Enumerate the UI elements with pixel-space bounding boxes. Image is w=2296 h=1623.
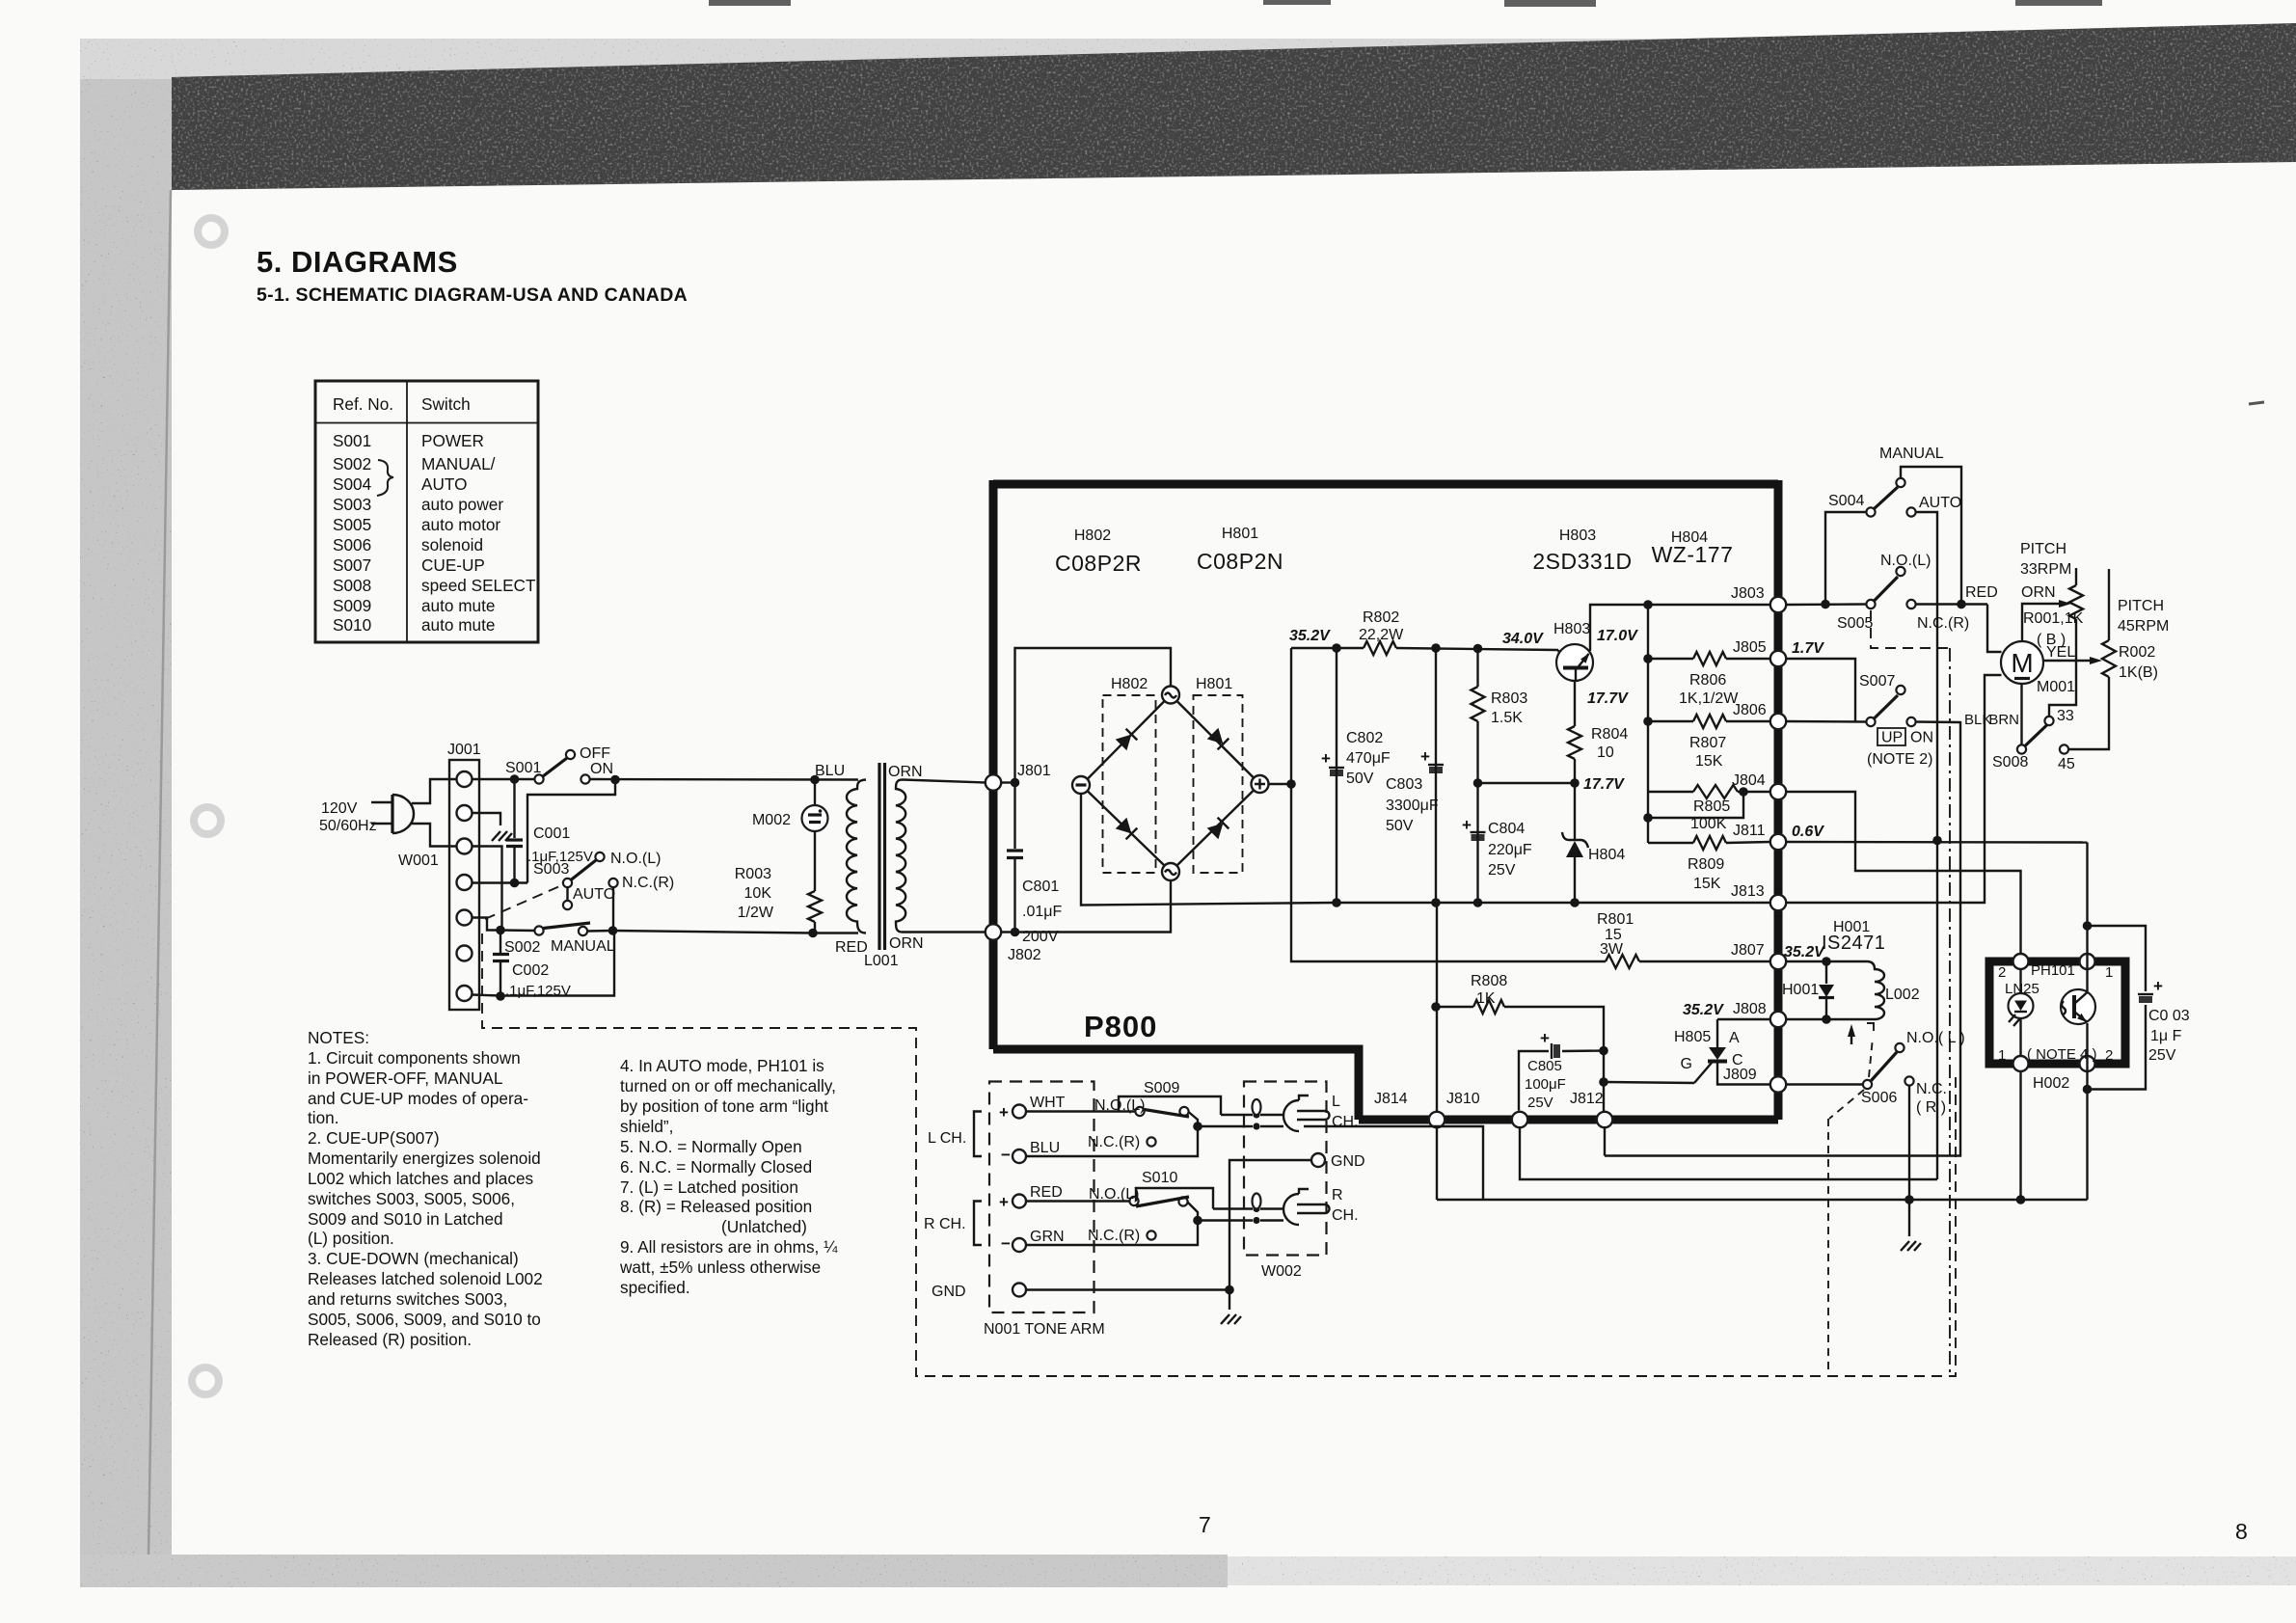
svg-text:H802: H802 [1074,527,1111,544]
wire ON-junction jog down to neutral row [527,780,615,883]
label ORN bottom [889,935,924,952]
svg-text:L002 which latches and places: L002 which latches and places [308,1169,533,1188]
label ON [590,761,613,777]
svg-text:RED: RED [835,939,868,956]
resistor R801 15 3W [1606,955,1770,968]
wire top AC path to bridge ~ [1015,648,1172,783]
label PH101 [2031,962,2075,979]
transformer L001 core [879,763,885,950]
ground rail [1437,1195,2088,1204]
svg-text:N.C.(R): N.C.(R) [1917,615,1969,632]
capacitor C001 [506,780,523,888]
switch S008 speed [2017,684,2068,754]
wire J803 to S005 [1787,600,1867,609]
svg-text:S003: S003 [333,495,371,514]
label C002 value [505,962,571,999]
pencil dash right margin [2249,402,2264,404]
resistor R804 10 [1568,681,1581,783]
svg-text:J805: J805 [1733,639,1767,656]
svg-text:+: + [999,1193,1009,1211]
dark scanned header band [172,23,2296,190]
wire J802 to bridge ~ [1002,880,1172,933]
svg-text:BLU: BLU [815,763,845,779]
svg-text:R002: R002 [2119,644,2155,661]
label H803 at transistor [1553,621,1590,637]
label C001 value [527,825,593,865]
capacitor C804 [1462,783,1486,903]
label pin1 bottom [1998,1047,2006,1064]
svg-text:17.7V: 17.7V [1587,690,1629,707]
svg-text:R801: R801 [1597,911,1634,928]
label P800 [1084,1010,1157,1043]
svg-text:J001: J001 [447,742,481,758]
feed column for R806/R807/R805/R809 [1643,605,1653,843]
svg-text:M002: M002 [752,812,791,828]
svg-text:1: 1 [2105,964,2113,981]
svg-text:C804: C804 [1488,821,1525,837]
P800 board thick border [993,480,1778,1120]
connector J813 [1770,895,1786,910]
wire H803 emitter to J803 [1590,600,1770,651]
svg-text:tion.: tion. [308,1108,339,1127]
svg-text:(NOTE 2): (NOTE 2) [1867,751,1932,768]
wire plug to J001 pin3 (W001 cord) [412,824,456,847]
label L CH. [928,1130,966,1147]
svg-text:N.O.(L): N.O.(L) [1880,553,1931,569]
tone arm terminals [1013,1105,1026,1297]
svg-text:C001: C001 [533,825,570,842]
resistor R802 22,2W [1364,641,1396,655]
wire YEL motor to R002 wiper [2043,657,2102,664]
svg-text:R003: R003 [735,866,771,882]
connector J803 [1770,597,1786,612]
svg-text:G: G [1681,1056,1692,1072]
svg-text:GRN: GRN [1030,1229,1065,1245]
label J802 [1008,947,1041,963]
svg-text:Momentarily energizes solenoid: Momentarily energizes solenoid [308,1149,541,1168]
label N.C.(R) of S005 [1917,615,1969,632]
svg-text:L001: L001 [864,953,899,969]
svg-text:S001: S001 [333,431,371,450]
svg-text:H804: H804 [1588,847,1625,863]
label J805 [1733,639,1767,656]
svg-text:H802: H802 [1111,676,1148,692]
svg-text:specified.: specified. [620,1278,690,1297]
svg-text:S007: S007 [333,555,371,575]
label N.O.(L) of S003 [610,851,661,867]
label H804 WZ-177 [1652,529,1734,567]
svg-text:AUTO: AUTO [1919,495,1961,511]
label ORN [2021,584,2056,601]
svg-text:+: + [1540,1029,1550,1047]
R plug tip line [1213,1205,1283,1212]
svg-text:H801: H801 [1222,526,1258,542]
label J808 [1733,1001,1767,1017]
svg-text:Releases latched solenoid L002: Releases latched solenoid L002 [308,1269,543,1288]
label 35.2V rail [1289,628,1331,644]
capacitor C802 [1321,648,1344,903]
bridge diode upper-right [1207,728,1229,750]
switch S006 solenoid [1863,1043,1914,1089]
label R805 100K [1690,798,1730,832]
svg-text:R809: R809 [1688,856,1724,873]
bridge diode lower-left [1116,818,1138,840]
RCA plug R [1253,1189,1330,1225]
bridge terminal ~ bottom [1162,863,1179,880]
label ON of S007 [1910,730,1933,746]
svg-text:R808: R808 [1471,973,1507,989]
svg-text:C08P2R: C08P2R [1055,551,1142,576]
zener H804 [1562,783,1588,907]
connector J809 [1770,1076,1786,1092]
label pin2 bottom [2105,1047,2113,1064]
svg-text:J809: J809 [1723,1067,1757,1083]
wire J807 to relay node [1770,957,1831,966]
svg-text:6. N.C. = Normally Closed: 6. N.C. = Normally Closed [620,1157,812,1177]
svg-text:IS2471: IS2471 [1822,933,1885,954]
label J813 [1731,883,1765,900]
svg-text:(Unlatched): (Unlatched) [721,1217,807,1236]
label 35.2V at J808 [1683,1002,1724,1018]
wire S003 N.C.(R) down to S002 output [612,887,614,931]
label S006 [1861,1090,1897,1106]
label H803 2SD331D [1532,527,1632,574]
svg-text:1: 1 [1998,1047,2006,1064]
wire J810 to mute bus [1520,1128,1937,1180]
svg-text:35.2V: 35.2V [1784,944,1825,960]
wire BLU to L shield [1026,1122,1202,1156]
svg-text:A: A [1729,1030,1740,1046]
label N001 TONE ARM [984,1321,1105,1338]
svg-text:and returns switches S003,: and returns switches S003, [308,1289,507,1309]
ground symbol tone arm [1221,1314,1241,1324]
label H002 [2033,1075,2069,1092]
label H801 C08P2N [1197,526,1283,574]
label S007 [1859,673,1895,690]
svg-text:MANUAL/: MANUAL/ [421,454,496,473]
label RED [1965,584,1998,601]
svg-text:( R ): ( R ) [1916,1099,1946,1116]
label N.C.(R) of S003 [622,875,674,891]
svg-text:Switch: Switch [421,394,471,414]
bridge terminal - left [1072,776,1090,794]
svg-text:1. Circuit components shown: 1. Circuit components shown [308,1048,521,1068]
label 0.6V at J811 [1792,824,1824,840]
wire gate to C805 node [1606,1082,1694,1083]
connector J810 [1512,1112,1527,1127]
svg-text:Ref. No.: Ref. No. [333,394,393,414]
label C cathode [1732,1052,1743,1068]
svg-text:H001: H001 [1782,982,1819,998]
svg-text:1/2W: 1/2W [738,905,774,921]
svg-text:+: + [2153,977,2163,995]
L plug tip line [1221,1111,1283,1118]
wire S004 branch down to J803 row [1825,512,1867,605]
svg-text:W001: W001 [398,852,439,869]
scanner grey top strip [80,39,2296,79]
label C003 1uF 25V [2148,1008,2190,1064]
svg-text:RED: RED [1965,584,1998,601]
label H805 [1674,1029,1711,1045]
label RED tone arm [1030,1184,1063,1201]
svg-text:W002: W002 [1261,1263,1302,1280]
svg-text:J803: J803 [1731,585,1765,602]
svg-text:2: 2 [1998,964,2006,981]
bridge terminal + right [1252,775,1269,793]
svg-text:N.C.(R): N.C.(R) [1088,1134,1140,1150]
bridge diode lower-right [1207,818,1229,840]
label MANUAL [551,938,615,955]
potentiometer R001 [2049,568,2083,717]
label S002 [504,939,540,956]
label 1.7V at J805 [1792,640,1824,657]
svg-text:auto mute: auto mute [421,596,495,615]
label S003 [533,861,569,878]
mechanical dashed S005 to cam [1871,610,1950,1376]
svg-text:NOTES:: NOTES: [308,1028,369,1047]
negative rail from bridge - to J813 [1081,794,1770,907]
svg-text:25V: 25V [1488,862,1516,879]
label M001 [2037,679,2075,695]
svg-text:S009: S009 [1144,1080,1179,1096]
label UP boxed [1877,728,1905,746]
label R804 10 [1591,726,1628,761]
svg-text:1K: 1K [1476,990,1496,1007]
wire WHT [1026,1110,1136,1112]
svg-text:J814: J814 [1374,1091,1408,1107]
connector J001 [449,760,479,1010]
svg-text:J807: J807 [1731,942,1765,959]
svg-text:S002: S002 [504,939,540,956]
label G gate [1681,1056,1692,1072]
svg-text:33: 33 [2057,708,2074,724]
resistor R809 15K [1648,836,1770,850]
svg-text:GND: GND [1331,1153,1365,1170]
svg-text:J806: J806 [1733,702,1767,718]
svg-text:ON: ON [1910,730,1933,746]
svg-text:N.O.(L): N.O.(L) [610,851,661,867]
wire J805 1.7V to S007 feed [1787,659,1856,722]
svg-text:R: R [1332,1187,1343,1204]
svg-text:BLK: BLK [1964,712,1991,728]
svg-text:solenoid: solenoid [421,535,483,555]
svg-text:N.C.: N.C. [1916,1081,1947,1097]
svg-text:S004: S004 [333,474,372,494]
svg-text:0.6V: 0.6V [1792,824,1824,840]
label L CH. at plug [1332,1094,1359,1130]
wire J814 riser to ground rail [1436,1128,1438,1201]
S009 bypass loop [1119,1096,1221,1115]
label H001 IS2471 [1822,919,1885,954]
label R CH. [924,1216,966,1232]
svg-text:watt, ±5% unless otherwise: watt, ±5% unless otherwise [619,1258,821,1277]
svg-text:S004: S004 [1828,493,1864,509]
svg-text:R803: R803 [1491,690,1527,707]
top edge smudges [709,0,2102,7]
svg-text:N.O.(L): N.O.(L) [1094,1097,1145,1114]
label MANUAL top [1879,446,1944,462]
svg-text:S001: S001 [505,760,541,776]
svg-text:2. CUE-UP(S007): 2. CUE-UP(S007) [308,1128,440,1148]
svg-text:auto motor: auto motor [421,515,500,534]
open contact N.C. S010 [1147,1231,1155,1239]
wire RED to motor [1987,605,2002,653]
svg-text:N.O.(L): N.O.(L) [1089,1186,1139,1203]
label R803 1.5K [1491,690,1527,726]
svg-text:R CH.: R CH. [924,1216,966,1232]
label LN25 [2005,981,2039,997]
svg-text:33RPM: 33RPM [2020,561,2071,578]
svg-text:ON: ON [590,761,613,777]
svg-text:J801: J801 [1017,763,1051,779]
svg-text:470μF: 470μF [1346,750,1391,767]
switch S010 auto mute R [1129,1197,1198,1221]
label H804 at zener [1588,847,1625,863]
switch reference table [315,381,538,642]
L shield to ground rail [1304,1126,1483,1200]
wire J811 0.6V to phototransistor node [1787,841,2088,844]
label 45 [2058,756,2075,772]
wire S002 output to transformer RED (bottom AC line) [613,931,859,933]
label S010 [1142,1170,1177,1186]
svg-text:auto power: auto power [421,495,503,514]
svg-text:S005: S005 [1837,615,1873,632]
svg-text:S010: S010 [333,615,371,635]
svg-text:8. (R) = Released position: 8. (R) = Released position [620,1197,812,1216]
svg-text:15K: 15K [1695,753,1723,770]
label 17.0V [1597,628,1638,644]
label N.C.(R) S009 [1088,1134,1140,1150]
svg-text:R807: R807 [1689,735,1726,751]
label GRN [1030,1229,1065,1245]
label GND tone arm [932,1284,966,1300]
label S009 [1144,1080,1179,1096]
label C801 .01uF 200V [1022,879,1062,945]
resistor R806 1K,1/2W [1648,652,1770,665]
svg-text:7. (L) = Latched position: 7. (L) = Latched position [620,1177,798,1197]
svg-text:10: 10 [1597,744,1614,761]
svg-text:S006: S006 [333,535,371,555]
wire J812 riser to BLK line [1604,1128,1606,1156]
tone arm dashed box N001 [989,1082,1094,1313]
svg-text:BRN: BRN [1988,712,2019,728]
label R801 15 3W [1597,911,1634,958]
label R CH. at plug [1332,1187,1359,1224]
label BLK [1964,712,1991,728]
label ORN top [888,764,923,780]
label R003 10K 1/2W [735,866,774,921]
svg-text:1K,1/2W: 1K,1/2W [1679,690,1739,707]
svg-text:.01μF: .01μF [1022,904,1062,920]
svg-text:CH.: CH. [1332,1207,1359,1224]
label N.O.(L) S009 [1094,1097,1145,1114]
svg-text:5-1. SCHEMATIC DIAGRAM-USA AND: 5-1. SCHEMATIC DIAGRAM-USA AND CANADA [257,284,688,306]
label H001 at diode [1782,982,1819,998]
label S001 [505,760,541,776]
svg-text:C08P2N: C08P2N [1197,549,1283,574]
svg-text:H801: H801 [1196,676,1232,692]
svg-text:R001,1K: R001,1K [2023,610,2084,627]
motor M001 [2001,641,2043,684]
connector J804 [1770,784,1786,799]
svg-text:M: M [2011,648,2033,678]
label 17.7V below H803 [1587,690,1629,707]
svg-text:−: − [1001,1234,1011,1253]
plus minus terminal signs [999,1103,1011,1253]
label N.C.(R) of S006 [1916,1081,1947,1116]
diode H001 [1819,961,1834,1019]
svg-text:+: + [999,1103,1009,1122]
svg-text:C801: C801 [1022,879,1059,895]
svg-text:OFF: OFF [580,745,610,762]
wire + output down to J807 (35.2V feed) [1291,784,1606,961]
scanner grey left margin column [80,39,172,1557]
capacitor C002 [493,931,509,1001]
wire S006 NC to ground rail [1908,1086,1910,1200]
svg-text:8: 8 [2235,1519,2248,1544]
wire SCR anode corner from J808 [1717,1018,1770,1020]
wire W002 GND lug [1229,1160,1311,1290]
notes column 1 [308,1028,543,1349]
connector J812 [1597,1112,1612,1127]
svg-text:34.0V: 34.0V [1502,631,1544,647]
svg-text:CH.: CH. [1332,1114,1359,1130]
svg-text:2: 2 [2105,1047,2113,1064]
svg-text:MANUAL: MANUAL [1879,446,1944,462]
svg-text:R802: R802 [1363,609,1399,626]
svg-text:C802: C802 [1346,730,1383,746]
optocoupler PH101 box [1989,961,2125,1064]
svg-text:S009: S009 [333,596,371,615]
connector J814 [1429,1112,1445,1127]
svg-text:in POWER-OFF, MANUAL: in POWER-OFF, MANUAL [308,1068,502,1088]
svg-text:CUE-UP: CUE-UP [421,555,485,575]
connector J801 [986,774,1001,790]
label J806 [1733,702,1767,718]
svg-text:P800: P800 [1084,1010,1157,1043]
svg-text:ORN: ORN [888,764,923,780]
svg-text:−: − [1001,1146,1011,1164]
notes column 2 [619,1056,838,1297]
R plug shield line [1198,1217,1283,1224]
PH101 pin 2 top-left [2013,954,2029,969]
svg-text:3W: 3W [1600,941,1624,958]
wire GRN to R shield [1026,1216,1202,1245]
svg-text:S007: S007 [1859,673,1895,690]
label R806 [1679,672,1739,707]
svg-text:50V: 50V [1346,771,1374,787]
solenoid plunger arrow [1848,1023,1880,1044]
label C803 3300uF 50V [1386,776,1439,834]
label J801 [1017,763,1051,779]
svg-text:25V: 25V [1527,1095,1553,1111]
label NOTE 2 [1867,751,1932,768]
label R001,1K (B) [2023,610,2084,648]
switch S002 MANUAL [496,923,617,935]
page number 7 [1199,1512,1211,1537]
label N.O.(L) of S005 [1880,553,1931,569]
svg-text:J813: J813 [1731,883,1765,900]
bottom scanner speckle strip [80,1555,2296,1587]
label J803 [1731,585,1765,602]
svg-text:+: + [1420,747,1430,766]
svg-text:L CH.: L CH. [928,1130,966,1147]
label R808 1K [1471,973,1507,1007]
capacitor C801 [1007,783,1023,937]
L plug shield line [1198,1123,1283,1129]
label S005 [1837,615,1873,632]
title 5. DIAGRAMS [257,245,458,279]
